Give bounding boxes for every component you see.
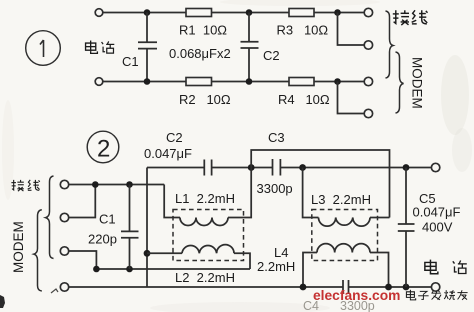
svg-text:C2: C2	[263, 48, 280, 63]
svg-text:R2 10Ω: R2 10Ω	[179, 92, 231, 107]
capacitor C4 (series in bottom rail)	[343, 280, 349, 294]
resistor R1	[186, 9, 212, 17]
wire: R4 to right terminal	[314, 81, 365, 83]
svg-text:L2 2.2mH: L2 2.2mH	[175, 270, 235, 285]
terminal (circuit 1 top-left)	[95, 9, 103, 17]
resistor R3	[289, 9, 314, 17]
svg-text:400V: 400V	[422, 220, 453, 235]
svg-text:C2: C2	[166, 130, 183, 145]
svg-text:L4: L4	[274, 245, 288, 260]
svg-text:R4 10Ω: R4 10Ω	[278, 92, 330, 107]
svg-text:2.2mH: 2.2mH	[257, 259, 295, 274]
wire: circuit1 top rail	[103, 12, 186, 14]
inductor L3	[303, 168, 390, 227]
svg-text:R3 10Ω: R3 10Ω	[277, 23, 329, 38]
wire: terminal 2 riser to bus A	[69, 185, 96, 218]
wire: C3 to output terminal	[280, 167, 431, 169]
terminal circuit2 left 2	[60, 213, 68, 221]
terminal circuit2 left 4	[60, 283, 68, 291]
svg-text:2: 2	[97, 136, 110, 163]
node: R3 output junction	[334, 9, 341, 16]
wire: bottom rail right of C4	[349, 286, 432, 288]
svg-text:0.047μF: 0.047μF	[144, 146, 192, 161]
svg-text:C3: C3	[268, 130, 285, 145]
capacitor C2 (circuit 2, series)	[204, 160, 211, 176]
node: R4 output junction	[334, 78, 341, 85]
node: rail/terminal3 junction	[93, 266, 100, 273]
node: bus A / terminal2 junction	[92, 181, 99, 188]
svg-text:L3 2.2mH: L3 2.2mH	[311, 192, 371, 207]
svg-text:MODEM: MODEM	[410, 57, 425, 109]
node: C2 top junction	[246, 9, 253, 16]
capacitor C3 (series)	[273, 159, 281, 176]
dashed core box L3/L4	[312, 210, 378, 261]
svg-text:MODEM: MODEM	[11, 221, 26, 273]
wire: drop to terminal 2	[338, 13, 365, 46]
svg-text:C1: C1	[122, 54, 139, 69]
wire: top wire to C2	[147, 167, 204, 169]
svg-text:3300p: 3300p	[257, 181, 293, 196]
svg-text:220p: 220p	[88, 232, 117, 247]
resistor R4	[289, 78, 314, 86]
terminal (circuit 1 bottom-left)	[95, 78, 103, 86]
node: riser/L2 junction	[144, 250, 151, 257]
terminal right 2	[364, 41, 372, 49]
scan smudge bottom left	[0, 295, 5, 308]
resistor R2	[186, 78, 212, 86]
terminal right 3	[364, 77, 372, 85]
brace for 接线 (circuit 2 left)	[46, 176, 54, 259]
capacitor C2 (circuit 1)	[241, 13, 259, 82]
node: L4 right bottom junction	[385, 284, 392, 291]
wire: R2 to R4	[212, 81, 290, 83]
inductor L1	[164, 168, 251, 226]
capacitor C1 (circuit 2)	[121, 185, 139, 270]
capacitor C5	[398, 168, 415, 288]
node: bus A / C1 junction	[126, 181, 133, 188]
label 接线 (circuit 1 right)	[393, 10, 428, 25]
node: C2 bottom junction	[246, 78, 253, 85]
node: C1 bottom junction	[144, 78, 151, 85]
dashed core box L1/L2	[173, 210, 244, 261]
node: L4 left bottom junction	[300, 284, 307, 291]
circle marker 2	[87, 131, 119, 163]
terminal right 4	[364, 109, 372, 117]
wire: C2 to C3	[212, 167, 272, 169]
node: C5 bottom junction	[403, 284, 410, 291]
inductor L2	[147, 245, 250, 269]
node: L3 left junction	[299, 164, 306, 171]
terminal right 1	[364, 8, 372, 16]
terminal circuit2 right top	[431, 163, 439, 171]
svg-text:R1 10Ω: R1 10Ω	[179, 23, 227, 38]
wire: drop to terminal 4	[338, 82, 365, 114]
node: C5 top junction	[403, 164, 410, 171]
wire: R1 to R3	[212, 12, 290, 14]
watermark 电子发烧友	[406, 290, 467, 300]
brace for 接线 (circuit 1 right)	[386, 11, 394, 78]
brace for MODEM (circuit 1 right)	[396, 52, 404, 113]
svg-text:0.068μFx2: 0.068μFx2	[169, 46, 231, 61]
label 电话 (circuit 2 right)	[425, 260, 467, 274]
svg-text:L1 2.2mH: L1 2.2mH	[175, 191, 235, 206]
wire: circuit1 bottom rail	[103, 81, 186, 83]
node: rail/C1 bottom junction	[126, 266, 133, 273]
label 接线 (circuit 2 left)	[11, 180, 39, 191]
label 电话 (circuit 1 left)	[86, 41, 115, 54]
node: C1 top junction	[144, 9, 151, 16]
wire: bottom rail from terminal 4	[69, 286, 343, 288]
wire: bypass arc over C3	[251, 150, 389, 218]
capacitor C1 (circuit 1)	[138, 13, 157, 82]
wire: terminal 3 drop to rail	[69, 251, 97, 269]
svg-text:0.047μF: 0.047μF	[413, 205, 461, 220]
terminal circuit2 right bottom	[431, 283, 439, 291]
svg-text:C1: C1	[99, 212, 116, 227]
svg-text:elecfans.com: elecfans.com	[313, 288, 400, 303]
node: bypass/L1 junction	[248, 164, 255, 171]
wire: bus A from terminal 1	[69, 184, 164, 186]
wire: rail y269	[96, 268, 250, 270]
terminal circuit2 left 3	[60, 247, 68, 255]
wire: riser x147	[146, 168, 148, 288]
inductor L4	[303, 244, 389, 287]
circle marker 1	[26, 31, 61, 66]
stray scan tick	[51, 289, 58, 293]
brace for MODEM (circuit 2 left)	[34, 210, 42, 291]
wire: R3 to right terminal	[314, 12, 365, 14]
terminal circuit2 left 1	[60, 180, 68, 188]
